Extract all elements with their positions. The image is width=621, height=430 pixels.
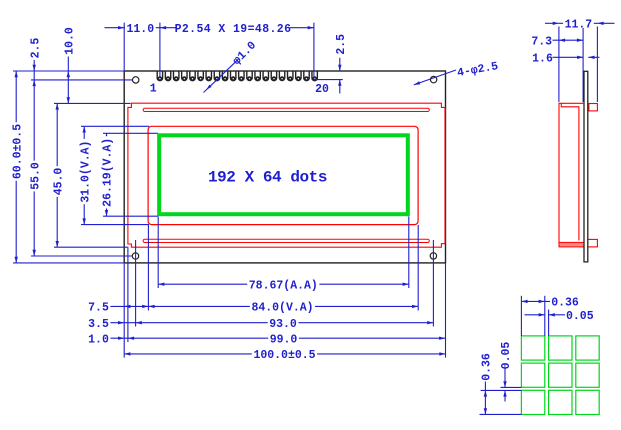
svg-text:31.0(V.A): 31.0(V.A) [79,141,92,203]
svg-text:93.0: 93.0 [269,318,297,331]
svg-text:0.36: 0.36 [481,353,494,381]
svg-text:3.5: 3.5 [88,318,109,331]
svg-text:11.0: 11.0 [126,23,154,36]
svg-text:2.5: 2.5 [29,38,42,59]
svg-text:100.0±0.5: 100.0±0.5 [253,349,315,362]
svg-text:45.0: 45.0 [52,168,65,196]
svg-text:26.19(V.A): 26.19(V.A) [102,138,115,207]
svg-text:99.0: 99.0 [270,333,298,346]
svg-text:0.05: 0.05 [500,342,513,370]
svg-text:192 X 64 dots: 192 X 64 dots [208,168,327,186]
svg-text:10.0: 10.0 [63,27,76,55]
svg-text:2.5: 2.5 [335,34,348,55]
svg-text:0.36: 0.36 [551,297,579,310]
svg-text:0.05: 0.05 [566,310,594,323]
svg-text:7.3: 7.3 [531,35,552,48]
svg-text:1.6: 1.6 [532,52,553,65]
svg-text:P2.54 X 19=48.26: P2.54 X 19=48.26 [175,23,292,36]
svg-text:7.5: 7.5 [88,302,109,315]
svg-text:84.0(V.A): 84.0(V.A) [251,302,313,315]
svg-text:78.67(A.A): 78.67(A.A) [249,279,318,292]
svg-text:11.7: 11.7 [565,18,593,31]
svg-text:1.0: 1.0 [88,333,109,346]
svg-text:60.0±0.5: 60.0±0.5 [11,124,24,179]
svg-text:55.0: 55.0 [29,162,42,190]
svg-text:20: 20 [315,83,329,96]
svg-text:1: 1 [150,83,157,96]
